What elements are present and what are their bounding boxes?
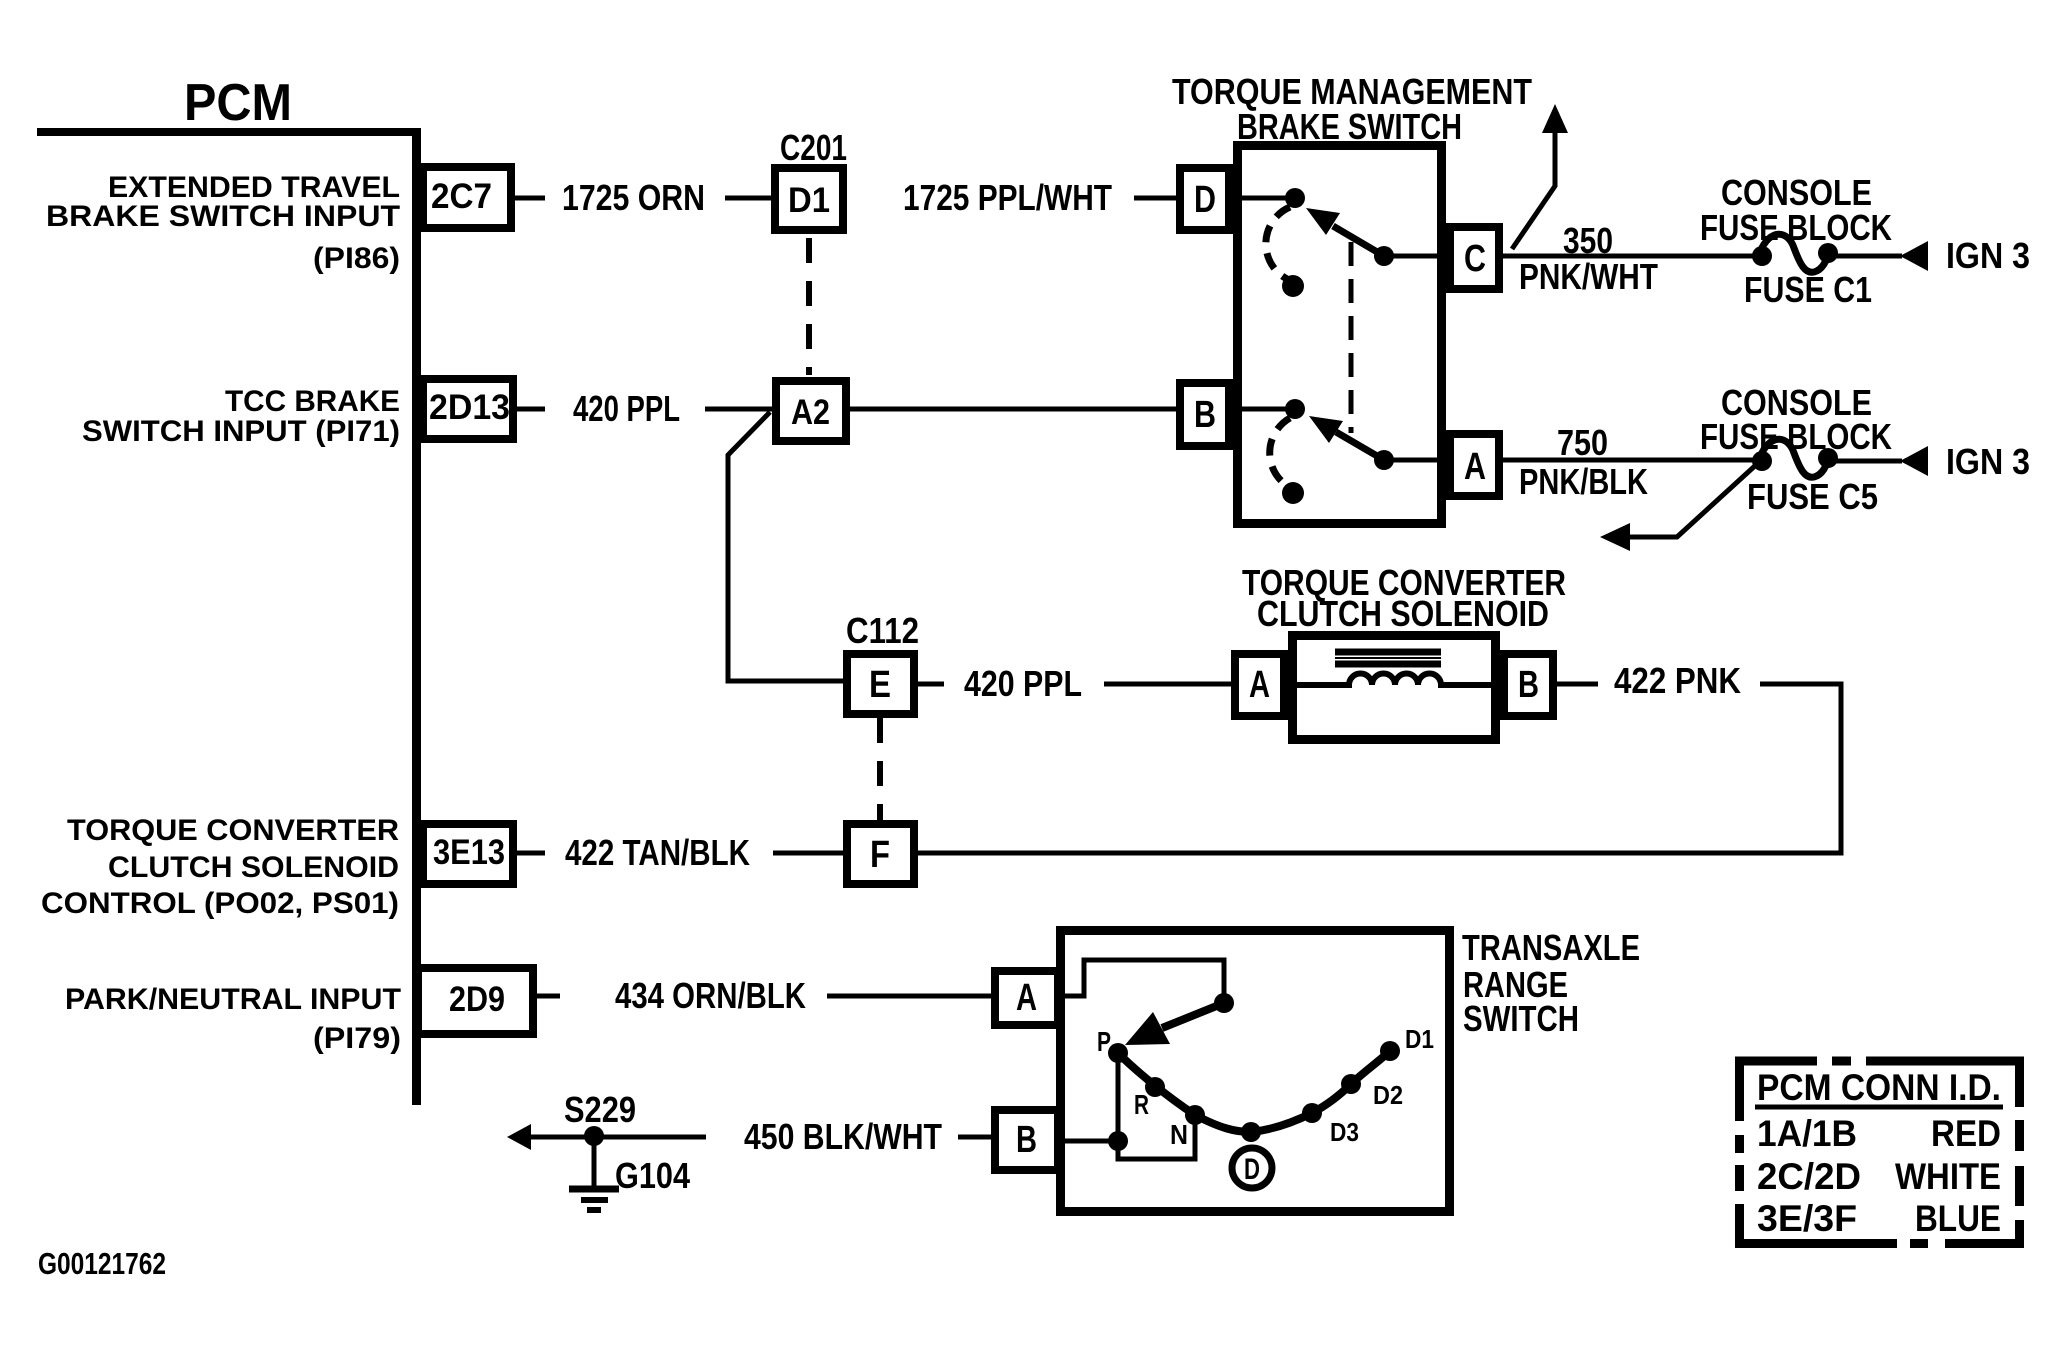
wire 434 ORN/BLK to range switch pin A (827, 994, 991, 999)
svg-text:2D9: 2D9 (449, 980, 505, 1019)
wire S229 (531, 1135, 706, 1140)
wire label 750 PNK/BLK (1519, 422, 1648, 502)
brake switch pin D (1180, 168, 1229, 230)
svg-text:434 ORN/BLK: 434 ORN/BLK (615, 975, 806, 1016)
node D1 (1380, 1041, 1400, 1061)
svg-text:CLUTCH SOLENOID: CLUTCH SOLENOID (108, 851, 399, 884)
fuse C5 (1752, 439, 1838, 477)
svg-text:1725 ORN: 1725 ORN (562, 177, 705, 218)
dashed mechanical link (1349, 242, 1354, 433)
svg-text:SWITCH INPUT (PI71): SWITCH INPUT (PI71) (82, 415, 400, 448)
splice S229 feed arrowhead (507, 1124, 531, 1150)
splice node S229 (584, 1126, 604, 1146)
PCM pin 2D9 (418, 968, 533, 1034)
wire pin B to lower contact (1229, 407, 1286, 412)
svg-text:D: D (1244, 1153, 1260, 1186)
wire fuse C5 to IGN 3 (1828, 459, 1902, 464)
node upper lower contact (1282, 275, 1304, 297)
svg-text:BRAKE SWITCH INPUT: BRAKE SWITCH INPUT (46, 200, 400, 233)
wire pin B to junction (1062, 1139, 1118, 1144)
node D (1241, 1122, 1261, 1142)
svg-text:G104: G104 (615, 1155, 690, 1196)
svg-text:TCC BRAKE: TCC BRAKE (225, 385, 400, 418)
IGN 3 arrowhead lower (1900, 446, 1928, 476)
svg-text:A: A (1464, 446, 1486, 488)
svg-text:SWITCH: SWITCH (1463, 998, 1579, 1039)
PCM pin 3E13 (423, 824, 513, 884)
node D2 (1341, 1074, 1361, 1094)
svg-text:BLUE: BLUE (1915, 1198, 2001, 1239)
svg-text:S229: S229 (564, 1089, 636, 1130)
wire 420 PPL to A2 (705, 407, 772, 412)
svg-text:RED: RED (1931, 1113, 2001, 1154)
range switch pin B (995, 1110, 1058, 1170)
transaxle range switch body (1061, 931, 1450, 1212)
range contact arc (1118, 1051, 1390, 1132)
wire stub pin 2D13 (517, 407, 545, 412)
torque management brake switch title (1172, 71, 1532, 147)
brake switch pin C (1450, 227, 1499, 289)
PCM case top line (37, 128, 418, 136)
wire stub pin B solenoid (1557, 682, 1598, 687)
battery feed arrow up (1512, 104, 1568, 249)
brake switch pin B (1180, 383, 1229, 446)
dashed connector link E to F (877, 718, 883, 820)
wire upper common to pin C (1384, 254, 1450, 259)
console fuse block label upper (1700, 172, 1892, 248)
svg-text:F: F (870, 834, 890, 876)
brake switch body (1238, 146, 1442, 524)
PCM connector ID table (1735, 1057, 2024, 1248)
node R (1145, 1077, 1165, 1097)
label extended travel brake switch input (PI86) (46, 171, 400, 275)
svg-text:422 TAN/BLK: 422 TAN/BLK (565, 832, 750, 873)
node D3 (1302, 1103, 1322, 1123)
svg-text:IGN 3: IGN 3 (1946, 235, 2030, 276)
svg-text:2D13: 2D13 (429, 388, 510, 427)
svg-text:3E13: 3E13 (433, 833, 505, 872)
svg-text:A2: A2 (791, 393, 830, 432)
wire lower common to pin A (1384, 458, 1450, 463)
svg-text:P: P (1097, 1026, 1111, 1057)
wire S229 to ground (592, 1137, 597, 1186)
IGN 3 arrowhead upper (1900, 241, 1928, 271)
svg-text:(PI79): (PI79) (313, 1022, 401, 1055)
svg-text:B: B (1518, 664, 1539, 706)
svg-text:PNK/WHT: PNK/WHT (1519, 256, 1658, 297)
connector C201 pin A2 (776, 381, 846, 441)
svg-text:D2: D2 (1373, 1080, 1403, 1110)
PCM case vertical bus (412, 128, 421, 1105)
label TCC brake switch input (PI71) (82, 385, 400, 448)
wire stub pin 2D9 (537, 994, 560, 999)
svg-text:B: B (1016, 1119, 1037, 1161)
svg-text:R: R (1134, 1089, 1149, 1120)
svg-text:BRAKE SWITCH: BRAKE SWITCH (1237, 106, 1462, 147)
svg-text:D: D (1194, 179, 1216, 221)
feed arrow from fuse C5 down left (1600, 464, 1757, 551)
svg-text:E: E (869, 664, 891, 706)
svg-text:C201: C201 (780, 127, 847, 168)
svg-text:FUSE C5: FUSE C5 (1747, 476, 1878, 517)
svg-text:FUSE C1: FUSE C1 (1744, 269, 1872, 310)
svg-text:D1: D1 (1405, 1024, 1434, 1054)
svg-text:A: A (1249, 664, 1270, 706)
svg-text:G00121762: G00121762 (38, 1246, 166, 1281)
torque converter clutch solenoid title (1242, 562, 1566, 634)
wire fuse C1 to IGN 3 (1828, 254, 1902, 259)
node upper contact D (1285, 188, 1305, 208)
svg-text:D3: D3 (1330, 1117, 1359, 1147)
svg-text:TRANSAXLE: TRANSAXLE (1462, 927, 1640, 968)
wire 1725 PPL/WHT (1134, 196, 1176, 201)
svg-text:C: C (1464, 238, 1486, 280)
console fuse block label lower (1700, 382, 1892, 457)
svg-text:FUSE BLOCK: FUSE BLOCK (1700, 207, 1892, 248)
svg-text:IGN 3: IGN 3 (1946, 441, 2030, 482)
solenoid pin A (1235, 654, 1284, 716)
svg-text:1725 PPL/WHT: 1725 PPL/WHT (903, 177, 1112, 218)
connector C112 pin E (847, 654, 914, 714)
ground G104 (569, 1189, 619, 1210)
svg-text:3E/3F: 3E/3F (1757, 1198, 1857, 1239)
wire 450 BLK/WHT to range switch pin B (958, 1135, 991, 1140)
node upper common (1374, 246, 1394, 266)
wire 422 PNK to pin F (918, 684, 1841, 853)
svg-text:D1: D1 (788, 181, 830, 220)
label D circled (1232, 1148, 1272, 1188)
node B junction (1108, 1131, 1128, 1151)
wire 1725 ORN (725, 196, 771, 201)
svg-text:350: 350 (1563, 220, 1613, 261)
svg-text:CLUTCH SOLENOID: CLUTCH SOLENOID (1257, 593, 1549, 634)
svg-text:A: A (1016, 977, 1037, 1019)
svg-text:C112: C112 (846, 610, 919, 651)
PCM pin 2C7 (423, 167, 511, 228)
wire 422 TAN/BLK to pin F (773, 851, 843, 856)
wire stub pin 2C7 (515, 196, 545, 201)
wire stub pin E (918, 682, 944, 687)
wiper lever (1125, 1003, 1224, 1045)
wire 350 PNK/WHT pin C to fuse C1 (1503, 254, 1762, 259)
svg-text:1A/1B: 1A/1B (1757, 1113, 1857, 1154)
svg-text:750: 750 (1557, 422, 1608, 463)
node P (1108, 1043, 1128, 1063)
range switch pin A (995, 971, 1058, 1025)
node N (1185, 1105, 1205, 1125)
svg-text:TORQUE CONVERTER: TORQUE CONVERTER (67, 814, 399, 847)
node lower contact B (1285, 399, 1305, 419)
wire tap A2 down to C112 pin E (728, 412, 843, 681)
svg-text:450 BLK/WHT: 450 BLK/WHT (744, 1116, 942, 1157)
svg-text:2C/2D: 2C/2D (1757, 1156, 1861, 1197)
node lower common (1374, 450, 1394, 470)
solenoid coil (1288, 674, 1500, 686)
upper switch lever (1306, 208, 1384, 256)
svg-text:PARK/NEUTRAL INPUT: PARK/NEUTRAL INPUT (65, 983, 401, 1016)
svg-text:CONTROL (PO02, PS01): CONTROL (PO02, PS01) (41, 887, 399, 920)
svg-text:PCM CONN I.D.: PCM CONN I.D. (1757, 1067, 2001, 1108)
dashed arc lower throw (1270, 418, 1290, 487)
svg-text:422 PNK: 422 PNK (1614, 660, 1741, 701)
wire 420 PPL to solenoid pin A (1104, 682, 1231, 687)
label park/neutral input (PI79) (65, 983, 401, 1055)
wire stub pin 3E13 (517, 851, 545, 856)
brake switch pin A (1450, 434, 1499, 496)
wire pin D to upper contact (1229, 196, 1286, 201)
svg-text:B: B (1194, 394, 1216, 436)
svg-text:420 PPL: 420 PPL (573, 388, 680, 429)
wire P to B junction (1118, 1053, 1195, 1159)
svg-text:N: N (1170, 1119, 1188, 1150)
solenoid pin B (1504, 654, 1553, 716)
dashed arc upper throw (1266, 207, 1290, 280)
fuse C1 (1752, 234, 1838, 272)
transaxle range switch title (1462, 927, 1640, 1039)
dashed connector link D1 to A2 (806, 238, 812, 375)
wire A2 to brake switch pin B (850, 407, 1176, 412)
torque converter clutch solenoid body (1293, 636, 1496, 740)
svg-text:(PI86): (PI86) (313, 242, 400, 275)
svg-text:PNK/BLK: PNK/BLK (1519, 461, 1648, 502)
PCM pin 2D13 (423, 379, 513, 439)
svg-text:420 PPL: 420 PPL (964, 663, 1082, 704)
wire label 350 PNK/WHT (1519, 220, 1658, 297)
node lower lower contact (1282, 482, 1304, 504)
connector C112 pin F (847, 824, 914, 884)
wire pin A to wiper pivot (1062, 960, 1224, 1003)
connector C201 pin D1 (775, 168, 843, 230)
lower switch lever (1309, 416, 1384, 460)
wire 750 PNK/BLK pin A to fuse C5 (1503, 458, 1762, 463)
node wiper pivot (1214, 993, 1234, 1013)
svg-text:PCM: PCM (184, 74, 292, 132)
svg-text:WHITE: WHITE (1895, 1156, 2001, 1197)
svg-text:2C7: 2C7 (431, 177, 492, 216)
solenoid core bars (1335, 652, 1441, 664)
label torque converter clutch solenoid control (41, 814, 399, 920)
